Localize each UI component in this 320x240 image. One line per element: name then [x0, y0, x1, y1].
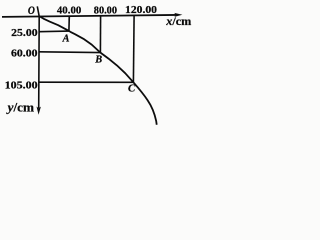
svg-text:40.00: 40.00 [57, 6, 81, 17]
tick stub below axis at 40 [68, 16, 70, 20]
horizontal line 105.00 to C [39, 81, 133, 83]
tick + dropline at 120 to C [132, 15, 135, 82]
svg-text:A: A [62, 34, 70, 45]
svg-text:C: C [128, 83, 136, 95]
tick + dropline at 80 to B [99, 16, 101, 53]
svg-text:105.00: 105.00 [5, 81, 38, 92]
svg-text:y/cm: y/cm [5, 100, 34, 114]
x-axis [2, 15, 177, 17]
svg-text:O: O [28, 4, 35, 17]
y-axis arrowhead [37, 107, 41, 115]
svg-text:120.00: 120.00 [125, 5, 157, 16]
trajectory curve through O, A, B, C and tail [40, 16, 157, 124]
y-axis [37, 6, 39, 108]
svg-text:25.00: 25.00 [11, 28, 37, 39]
horizontal line 60.00 to B [39, 51, 100, 54]
x-axis arrowhead [174, 13, 182, 17]
tick + dropline at 40 to A [68, 16, 70, 31]
svg-text:80.00: 80.00 [94, 6, 117, 17]
svg-text:x/cm: x/cm [165, 14, 191, 28]
projectile trajectory graph [0, 0, 195, 128]
svg-text:B: B [94, 54, 102, 65]
horizontal line 25.00 to A [39, 30, 69, 33]
svg-text:60.00: 60.00 [11, 49, 38, 60]
